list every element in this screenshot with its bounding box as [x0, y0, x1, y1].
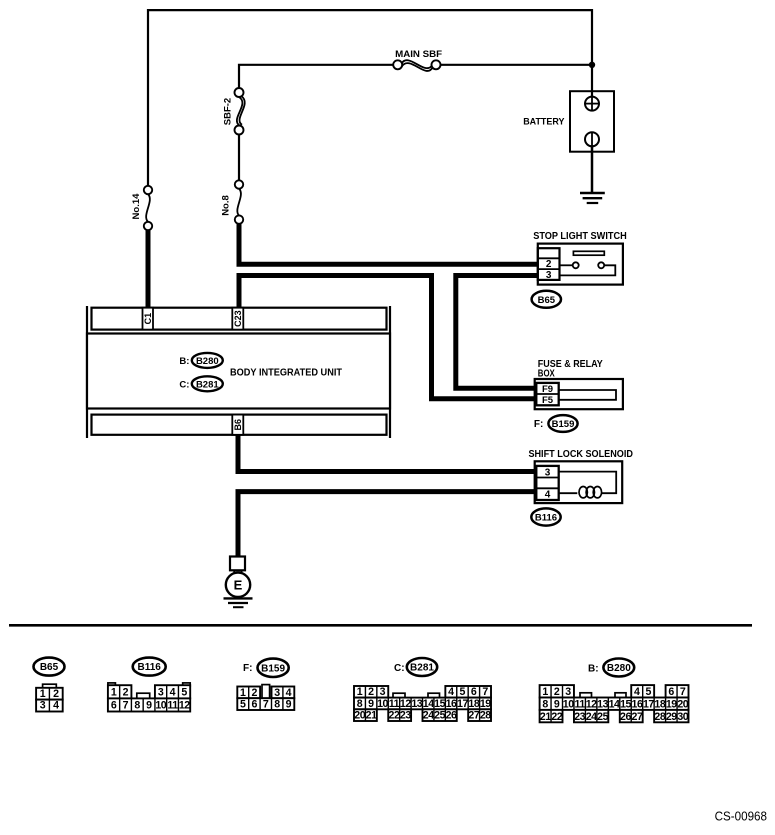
- svg-text:E: E: [234, 577, 243, 592]
- svg-text:C23: C23: [233, 310, 243, 327]
- svg-text:2: 2: [546, 259, 552, 270]
- battery: [523, 91, 614, 203]
- svg-text:22: 22: [551, 711, 562, 723]
- svg-text:4: 4: [286, 687, 292, 699]
- svg-text:28: 28: [480, 710, 491, 722]
- svg-text:3: 3: [546, 270, 552, 281]
- svg-text:SHIFT LOCK SOLENOID: SHIFT LOCK SOLENOID: [528, 449, 633, 460]
- wire: connector B6 to shift lock solenoid pin 3: [238, 434, 539, 472]
- svg-text:B281: B281: [410, 663, 434, 674]
- wire: MAIN SBF to battery junction: [438, 64, 592, 66]
- pin grid row 2: [354, 698, 491, 710]
- wire: battery power bus (No.14 fuse up, across top, down to battery +): [148, 10, 592, 190]
- svg-text:B116: B116: [138, 662, 162, 673]
- svg-text:3: 3: [380, 686, 386, 698]
- svg-text:22: 22: [389, 710, 400, 722]
- svg-text:6: 6: [111, 700, 117, 712]
- svg-text:20: 20: [677, 698, 688, 710]
- svg-text:F:: F:: [243, 663, 252, 674]
- svg-text:2: 2: [123, 687, 129, 699]
- svg-text:B:: B:: [179, 356, 189, 367]
- svg-text:8: 8: [357, 698, 363, 710]
- connector tab B6: [232, 415, 243, 435]
- wire: No.8 fuse to stop light switch pin 2: [239, 220, 540, 265]
- svg-text:F5: F5: [542, 395, 554, 406]
- svg-text:BODY INTEGRATED UNIT: BODY INTEGRATED UNIT: [230, 367, 343, 379]
- solenoid coil: [559, 472, 617, 494]
- svg-text:23: 23: [574, 711, 585, 723]
- svg-text:B281: B281: [196, 379, 219, 390]
- svg-text:CS-00968: CS-00968: [715, 809, 767, 824]
- svg-text:4: 4: [634, 686, 640, 698]
- svg-text:2: 2: [554, 686, 560, 698]
- svg-text:8: 8: [274, 699, 280, 711]
- shift lock solenoid L1: [528, 449, 633, 525]
- svg-text:9: 9: [368, 698, 374, 710]
- connector tab C23: [232, 308, 243, 330]
- svg-text:17: 17: [643, 698, 654, 710]
- wire: stop light switch pin 3 to fuse F9: [456, 276, 539, 389]
- svg-text:28: 28: [654, 711, 665, 723]
- svg-text:3: 3: [158, 687, 164, 699]
- svg-text:2: 2: [368, 686, 374, 698]
- svg-text:10: 10: [563, 698, 574, 710]
- svg-text:5: 5: [240, 699, 246, 711]
- svg-text:7: 7: [123, 700, 129, 712]
- ground (battery): [580, 192, 605, 195]
- svg-text:16: 16: [446, 698, 457, 710]
- junction node at battery feed: [589, 62, 595, 68]
- svg-text:25: 25: [434, 710, 445, 722]
- pin grid row 1: [237, 687, 260, 699]
- svg-text:B65: B65: [40, 662, 59, 673]
- svg-text:B:: B:: [588, 664, 599, 675]
- svg-text:BATTERY: BATTERY: [523, 116, 565, 127]
- fusible link MAIN SBF: [393, 49, 442, 71]
- ground terminal and node E: [224, 557, 253, 608]
- svg-text:29: 29: [666, 711, 677, 723]
- svg-text:6: 6: [471, 686, 477, 698]
- connector pins column: [536, 383, 558, 405]
- svg-text:2: 2: [251, 687, 257, 699]
- keying slot: [262, 685, 270, 699]
- wire: connector C23 to fuse F5: [239, 276, 539, 399]
- connector pins column: [538, 248, 560, 280]
- svg-text:3: 3: [274, 687, 280, 699]
- svg-text:14: 14: [423, 698, 434, 710]
- op: body integrated unit U1: [87, 306, 390, 438]
- svg-text:26: 26: [620, 711, 631, 723]
- svg-text:11: 11: [167, 700, 178, 712]
- svg-text:5: 5: [460, 686, 466, 698]
- fuse element link F9-F5: [559, 390, 616, 400]
- svg-text:B159: B159: [552, 419, 575, 430]
- svg-text:15: 15: [620, 698, 631, 710]
- connector C: B281 pinout: [354, 658, 491, 722]
- wire: No.14 fuse to connector C1: [146, 226, 151, 310]
- svg-text:24: 24: [423, 710, 434, 722]
- svg-text:BOX: BOX: [538, 368, 555, 379]
- svg-text:4: 4: [545, 490, 551, 501]
- connector B116 pinout: [108, 658, 190, 712]
- svg-text:14: 14: [609, 698, 620, 710]
- svg-text:10: 10: [155, 700, 166, 712]
- side rails: [86, 306, 88, 438]
- ground: [224, 597, 253, 599]
- fusible link SBF-2: [223, 88, 245, 135]
- pin grid row 1: [540, 685, 574, 697]
- svg-text:C:: C:: [179, 379, 189, 390]
- svg-text:SBF-2: SBF-2: [223, 98, 234, 125]
- pin grid row 1: [108, 685, 132, 698]
- pin grid row 3: [540, 710, 563, 722]
- svg-text:17: 17: [457, 698, 468, 710]
- keying tab: [43, 684, 57, 688]
- keying tabs: [393, 693, 405, 698]
- svg-text:4: 4: [448, 686, 454, 698]
- svg-text:21: 21: [366, 710, 377, 722]
- svg-text:B6: B6: [233, 419, 243, 431]
- battery - terminal: [585, 132, 599, 146]
- svg-text:13: 13: [597, 698, 608, 710]
- pin grid row 1: [354, 686, 388, 698]
- battery + terminal: [585, 97, 599, 111]
- svg-text:10: 10: [377, 698, 388, 710]
- svg-text:8: 8: [542, 698, 548, 710]
- svg-text:C:: C:: [394, 663, 405, 674]
- svg-text:26: 26: [446, 710, 457, 722]
- svg-text:5: 5: [181, 687, 187, 699]
- svg-text:13: 13: [411, 698, 422, 710]
- svg-text:4: 4: [170, 687, 176, 699]
- svg-text:9: 9: [286, 699, 292, 711]
- svg-text:27: 27: [632, 711, 643, 723]
- main box: [87, 334, 390, 409]
- separator line: [9, 624, 752, 627]
- switch contacts and loop: [560, 264, 573, 266]
- stop light switch SW1: [532, 231, 627, 308]
- svg-text:B159: B159: [261, 663, 285, 674]
- svg-text:6: 6: [251, 699, 257, 711]
- keying tabs: [108, 683, 116, 686]
- svg-text:16: 16: [632, 698, 643, 710]
- keying tabs: [580, 693, 592, 699]
- svg-text:18: 18: [654, 698, 665, 710]
- svg-text:No.14: No.14: [131, 193, 142, 220]
- svg-text:1: 1: [111, 687, 117, 699]
- svg-text:12: 12: [400, 698, 411, 710]
- svg-text:27: 27: [468, 710, 479, 722]
- svg-text:2: 2: [53, 688, 59, 700]
- svg-text:21: 21: [540, 711, 551, 723]
- svg-text:F:: F:: [534, 419, 543, 430]
- svg-text:7: 7: [482, 686, 488, 698]
- svg-text:1: 1: [357, 686, 363, 698]
- svg-text:B65: B65: [538, 295, 556, 306]
- svg-text:F9: F9: [542, 384, 553, 395]
- wire: SBF-2 feed from MAIN SBF line: [239, 65, 395, 93]
- svg-text:18: 18: [468, 698, 479, 710]
- wire: battery negative to ground: [591, 139, 594, 192]
- top connector strip: [92, 308, 387, 330]
- svg-text:3: 3: [545, 467, 551, 478]
- svg-text:23: 23: [400, 710, 411, 722]
- fuse and relay box: [534, 359, 623, 432]
- svg-text:20: 20: [354, 710, 365, 722]
- svg-text:No.8: No.8: [221, 195, 232, 216]
- svg-text:1: 1: [240, 687, 246, 699]
- svg-text:5: 5: [645, 686, 651, 698]
- svg-text:24: 24: [586, 711, 597, 723]
- svg-text:9: 9: [554, 698, 560, 710]
- svg-text:STOP LIGHT SWITCH: STOP LIGHT SWITCH: [533, 231, 627, 242]
- svg-text:15: 15: [434, 698, 445, 710]
- svg-text:7: 7: [680, 686, 686, 698]
- connector B65 pinout: [34, 658, 65, 712]
- svg-text:25: 25: [597, 711, 608, 723]
- svg-text:7: 7: [263, 699, 269, 711]
- pin grid row 3: [354, 709, 377, 721]
- svg-text:30: 30: [677, 711, 688, 723]
- bottom connector strip: [92, 415, 387, 435]
- label B116: [531, 508, 560, 525]
- pin grid row 2: [108, 698, 190, 711]
- svg-text:B116: B116: [535, 513, 557, 524]
- svg-text:3: 3: [40, 700, 46, 712]
- wire: shift lock solenoid pin 4 to ground E: [238, 492, 539, 558]
- connector F: B159 pinout: [237, 659, 294, 711]
- svg-text:19: 19: [480, 698, 491, 710]
- svg-text:B280: B280: [607, 663, 631, 674]
- pin grid row 2: [540, 698, 689, 710]
- svg-text:4: 4: [53, 700, 59, 712]
- svg-text:19: 19: [666, 698, 677, 710]
- fuse No.14: [131, 186, 152, 230]
- svg-text:1: 1: [40, 688, 46, 700]
- connector tab C1: [143, 308, 154, 330]
- pin grid: [36, 688, 63, 700]
- label B65: [532, 291, 561, 308]
- svg-text:6: 6: [668, 686, 674, 698]
- svg-text:1: 1: [542, 686, 548, 698]
- switch actuator bar: [573, 251, 604, 255]
- svg-text:12: 12: [586, 698, 597, 710]
- svg-text:3: 3: [565, 686, 571, 698]
- connector pins column: [536, 466, 558, 500]
- svg-text:11: 11: [389, 698, 400, 710]
- fuse No.8: [221, 180, 244, 224]
- svg-text:12: 12: [179, 700, 190, 712]
- svg-text:B280: B280: [196, 356, 219, 367]
- svg-text:8: 8: [134, 700, 140, 712]
- svg-text:9: 9: [146, 700, 152, 712]
- svg-text:C1: C1: [143, 313, 153, 325]
- pin grid row 2: [237, 698, 294, 710]
- connector B: B280 pinout: [540, 659, 689, 723]
- svg-text:MAIN SBF: MAIN SBF: [395, 49, 442, 60]
- wire: SBF-2 to No.8 fuse: [238, 130, 240, 185]
- svg-text:11: 11: [575, 698, 586, 710]
